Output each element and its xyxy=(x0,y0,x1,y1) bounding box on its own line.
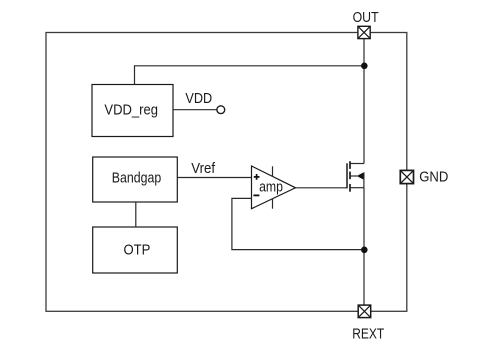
label GND xyxy=(419,169,448,186)
terminal VDD (open circle) xyxy=(217,106,225,114)
svg-text:REXT: REXT xyxy=(352,326,384,343)
svg-text:VDD_reg: VDD_reg xyxy=(104,102,158,119)
wire source to REXT pin xyxy=(363,188,365,305)
op-amp positive supply pin xyxy=(272,166,274,176)
label REXT xyxy=(352,326,384,343)
label VDD xyxy=(185,90,212,107)
wire VDD_reg top to OUT net xyxy=(135,66,362,85)
channel segment source xyxy=(349,184,351,192)
svg-text:VDD: VDD xyxy=(185,90,212,107)
block VDD_reg xyxy=(92,85,173,137)
source stub xyxy=(350,187,364,189)
junction dot OUT net / VDD_reg tap xyxy=(361,63,368,70)
block OTP xyxy=(93,227,178,273)
svg-text:OUT: OUT xyxy=(353,9,379,26)
channel segment drain xyxy=(349,161,351,169)
block Bandgap xyxy=(93,157,178,202)
op-amp negative supply pin xyxy=(272,199,274,209)
bulk arrow xyxy=(357,172,364,179)
drain stub xyxy=(350,163,364,165)
wire VDD_reg output to VDD terminal xyxy=(173,109,217,111)
junction dot source / feedback tap xyxy=(361,247,368,254)
svg-text:Vref: Vref xyxy=(191,160,216,177)
wire Vref (Bandgap to op-amp + input) xyxy=(177,177,251,179)
op-amp + input marker xyxy=(254,174,260,180)
chip boundary xyxy=(46,33,407,312)
bulk to source connection xyxy=(363,172,365,187)
wire Bandgap to OTP xyxy=(135,202,137,227)
pin GND xyxy=(400,170,413,183)
gate bar xyxy=(346,163,348,188)
op-amp amp xyxy=(252,166,296,209)
svg-text:amp: amp xyxy=(259,178,283,195)
wire OUT pin to drain xyxy=(363,38,365,163)
label Vref xyxy=(191,160,216,177)
bulk stub xyxy=(350,175,357,177)
channel segment bulk xyxy=(349,172,351,180)
wire feedback (op-amp - input to source node) xyxy=(232,198,361,249)
svg-text:Bandgap: Bandgap xyxy=(112,169,161,186)
svg-text:GND: GND xyxy=(419,169,448,186)
transistor pass NMOS xyxy=(347,161,364,192)
svg-text:OTP: OTP xyxy=(124,242,151,259)
label OUT xyxy=(353,9,379,26)
pin REXT xyxy=(358,305,371,318)
op-amp - input marker xyxy=(253,194,259,196)
pin OUT xyxy=(358,26,370,38)
wire op-amp output to gate xyxy=(296,187,348,189)
